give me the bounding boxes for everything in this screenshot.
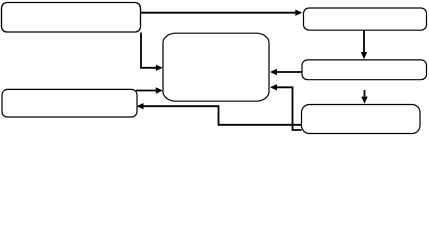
arrowhead D xyxy=(156,65,163,71)
arrowhead G xyxy=(361,97,367,104)
arrowhead E xyxy=(156,87,163,93)
wire A: top-left box to top-right box xyxy=(141,12,297,14)
box bottom-right xyxy=(302,105,421,134)
wire H: bottom-right box left and up into bottom-left box xyxy=(143,106,302,125)
box top-right xyxy=(304,8,427,30)
wire E: bottom-left box to center box xyxy=(136,90,157,92)
box center xyxy=(163,33,269,101)
wire C: middle-right box to center box xyxy=(276,71,302,73)
box top-left xyxy=(2,3,141,33)
arrowhead H xyxy=(137,103,144,109)
wire D: top-left box down and right into center box xyxy=(141,33,157,68)
arrowhead C xyxy=(270,69,277,75)
arrowhead F xyxy=(270,84,277,90)
wire B: top-right box down to middle-right box xyxy=(363,31,365,54)
wire G: down into bottom-right box xyxy=(364,90,366,98)
arrowhead B xyxy=(361,52,367,59)
box middle-right xyxy=(302,60,427,80)
box bottom-left xyxy=(2,89,137,117)
wire F: bottom-right box up and left into center box xyxy=(276,87,302,130)
arrowhead A xyxy=(295,10,302,16)
